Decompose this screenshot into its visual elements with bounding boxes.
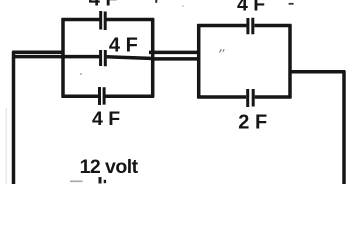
capacitor C4 4F (right box, top branch) plates — [248, 18, 253, 35]
scan speck dot left of middle capacitor — [80, 73, 82, 75]
wire: right outer vertical — [342, 71, 346, 184]
wire: middle net to right box (lower stroke) — [152, 57, 198, 61]
wire: left box right rail — [151, 18, 155, 97]
scan speck near top center — [155, 0, 157, 3]
svg-text:4 F: 4 F — [89, 0, 118, 11]
svg-text:2 F: 2 F — [238, 111, 267, 133]
wire: left box left rail — [61, 18, 65, 97]
wire: right box top branch — [197, 24, 291, 28]
svg-text:4 F: 4 F — [237, 0, 265, 15]
svg-text:4 F: 4 F — [92, 108, 120, 130]
wire: right stub to outer loop — [289, 70, 345, 74]
wire: left link upper stroke — [12, 50, 64, 54]
wire: left box top branch — [62, 18, 154, 22]
wire: middle net to right box (upper stroke) — [149, 51, 198, 55]
capacitor C5 2F (right box, bottom branch) plates — [248, 89, 254, 107]
wire: middle net right segment — [107, 57, 152, 59]
wire: middle net left segment — [12, 55, 99, 59]
svg-text:4 F: 4 F — [109, 35, 138, 57]
wire: left box bottom branch — [62, 94, 154, 98]
scan speck near right box left rail — [220, 49, 225, 52]
scan faint dot right of speck — [182, 5, 184, 7]
capacitor C1 4F (left box, top branch) plates — [101, 11, 106, 30]
svg-text:12 volt: 12 volt — [80, 156, 139, 178]
capacitor C3 4F (left box, bottom branch) plates — [100, 87, 105, 105]
wire: right box right rail — [288, 24, 292, 98]
battery lead faint marks bottom-left — [70, 180, 83, 182]
wire: right box bottom branch — [197, 95, 291, 99]
battery B1 12 volt (cut off at bottom edge) — [100, 177, 105, 184]
wire: left outer vertical — [12, 52, 16, 185]
capacitor C2 4F (left box, middle branch) plates — [101, 50, 106, 66]
wire: right box left rail — [197, 24, 201, 98]
scan speck top right — [289, 3, 294, 5]
scan faint streak along lower left margin — [5, 108, 7, 184]
